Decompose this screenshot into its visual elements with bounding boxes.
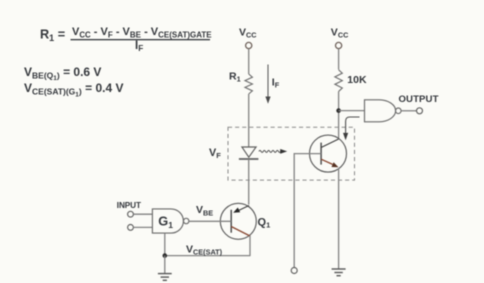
junction 10K / gate input	[336, 108, 341, 113]
ground left	[158, 256, 172, 281]
svg-text:INPUT: INPUT	[117, 201, 141, 210]
svg-text:VCC - VF - VBE - VCE(SAT)GATE: VCC - VF - VBE - VCE(SAT)GATE	[72, 26, 212, 39]
wire Q2 emitter to ground	[338, 169, 340, 269]
svg-text:VBE: VBE	[196, 204, 213, 217]
svg-text:VCE(SAT)(G1) = 0.4 V: VCE(SAT)(G1) = 0.4 V	[24, 81, 123, 98]
label VBE(Q1) = 0.6 V	[24, 65, 101, 82]
ground right	[332, 269, 346, 276]
svg-text:R1 =: R1 =	[40, 28, 65, 44]
svg-text:G1: G1	[158, 213, 173, 230]
wire G1 output to Q1 base (VBE node)	[189, 204, 231, 221]
power VCC left terminal	[239, 27, 257, 49]
optocoupler dashed box	[228, 127, 355, 180]
wire 10K to photo-transistor collector	[338, 91, 340, 139]
resistor 10K	[335, 70, 367, 92]
equation R1 = (VCC-VF-VBE-VCE(SAT)GATE)/IF	[40, 26, 212, 53]
wire G1 ground stub	[164, 233, 166, 256]
resistor R1	[229, 70, 252, 94]
light coupling wavy arrow	[259, 149, 287, 154]
photo-transistor Q2	[310, 135, 347, 172]
wire VCC to 10K	[338, 49, 340, 70]
current arrow into photo-transistor collector	[343, 117, 360, 140]
gate G1	[152, 209, 189, 233]
svg-text:VF: VF	[209, 147, 221, 160]
svg-text:Q1: Q1	[258, 216, 271, 229]
svg-text:VCC: VCC	[331, 27, 349, 40]
wire gate bubble to OUTPUT terminal	[399, 94, 439, 114]
wire LED cathode to Q1 collector	[248, 159, 250, 205]
wire Q1 emitter to ground bus	[249, 236, 251, 257]
transistor Q1	[220, 203, 270, 239]
wire input1 to G1	[134, 213, 153, 215]
svg-text:OUTPUT: OUTPUT	[399, 94, 439, 105]
wire ground bus	[165, 255, 250, 257]
input terminals INPUT	[117, 201, 141, 230]
svg-text:VCE(SAT): VCE(SAT)	[186, 243, 223, 256]
wire R1 to LED anode	[248, 94, 250, 147]
svg-text:IF: IF	[272, 77, 280, 90]
label VCE(SAT)(G1) = 0.4 V	[24, 81, 123, 98]
wire input2 to G1	[134, 226, 153, 228]
power VCC right terminal	[331, 27, 349, 49]
output gate U2	[365, 100, 402, 122]
svg-text:VCC: VCC	[239, 27, 257, 40]
svg-text:10K: 10K	[347, 74, 367, 86]
LED diode VF	[209, 147, 258, 160]
current arrow IF	[265, 65, 279, 104]
svg-text:VBE(Q1) = 0.6 V: VBE(Q1) = 0.6 V	[24, 65, 101, 82]
junction ground bus	[163, 253, 168, 258]
svg-text:IF: IF	[135, 40, 143, 53]
svg-text:R1: R1	[229, 70, 241, 83]
wire junction to output gate	[339, 110, 365, 112]
wire VCC to R1	[248, 49, 250, 74]
wire Q2 base to base terminal	[291, 154, 321, 274]
